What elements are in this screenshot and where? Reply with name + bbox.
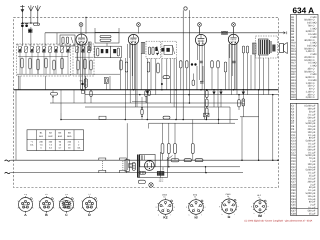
- svg-text:f: f: [201, 214, 202, 217]
- wire: [106, 43, 108, 46]
- band switch contact: [73, 44, 74, 45]
- socket B: [40, 198, 54, 212]
- tuning coil L7: [49, 47, 52, 53]
- chassis ground bus: [14, 89, 279, 91]
- svg-text:a k: a k: [45, 193, 47, 196]
- junction: [30, 22, 32, 24]
- wire drop x110: [109, 76, 111, 90]
- wire: [119, 58, 121, 90]
- svg-text:m g: m g: [24, 194, 27, 196]
- detector filter parts: [242, 46, 244, 53]
- junction: [147, 119, 149, 121]
- filter trimmer 2: [66, 37, 68, 44]
- svg-text:B4: B4: [68, 132, 71, 135]
- wire: [192, 74, 194, 81]
- wire divider links: [206, 98, 208, 100]
- wire tube lead: [196, 44, 198, 61]
- wire earth lead-in: [21, 12, 23, 23]
- divider resistor R28: [206, 99, 209, 107]
- svg-text:IM: IM: [258, 214, 262, 218]
- junction: [272, 94, 274, 96]
- wire: [263, 58, 265, 95]
- band switch contact: [89, 44, 90, 45]
- IF transformer box 2 (dashed): [162, 41, 177, 58]
- svg-text:Is: Is: [194, 196, 196, 199]
- bias resistor R34: [191, 144, 194, 154]
- svg-text:g: g: [156, 207, 157, 209]
- wire: [60, 103, 62, 113]
- rectifier tube B5: [145, 161, 155, 171]
- wire: [146, 58, 148, 119]
- tuning coil L4: [31, 47, 34, 53]
- mains DP switch S1 upper contact: [99, 158, 106, 160]
- wire: [268, 58, 270, 90]
- svg-text:Ie: Ie: [228, 215, 231, 219]
- svg-text:7.5: 7.5: [40, 144, 44, 147]
- svg-text:A: A: [24, 213, 27, 217]
- junction: [60, 119, 62, 121]
- junction: [81, 89, 83, 91]
- svg-text:R29: R29: [291, 96, 296, 99]
- IF decoupling resistor: [141, 109, 143, 115]
- resistor R24: [51, 93, 58, 96]
- wire: [218, 122, 220, 125]
- wire: [145, 96, 147, 103]
- tube top-cap connector x=199.5: [198, 23, 202, 27]
- wire coil-pack drop: [45, 76, 47, 90]
- divider resistor R29: [206, 108, 209, 116]
- resistor R9 (coil pack): [84, 59, 86, 69]
- volume control R22: [163, 76, 170, 79]
- junction: [218, 119, 220, 121]
- band switch contact: [77, 44, 78, 45]
- junction: [133, 89, 135, 91]
- svg-text:235: 235: [68, 141, 72, 144]
- transformer primary box: [140, 154, 155, 166]
- wire tube lead: [82, 44, 84, 90]
- junction: [206, 89, 208, 91]
- junction: [258, 89, 260, 91]
- wire tube lead: [236, 44, 238, 95]
- wire riser x272: [272, 95, 274, 161]
- svg-text:5.2: 5.2: [49, 146, 53, 149]
- svg-text:B2: B2: [49, 132, 52, 135]
- coil-pack shield box 2 (dashed): [73, 44, 94, 76]
- wire tube lead: [77, 44, 79, 61]
- wire: [217, 68, 219, 107]
- wire: [211, 68, 213, 90]
- wire: [132, 44, 134, 90]
- wire tube lead: [136, 44, 138, 108]
- grid capacitor C23: [232, 60, 235, 62]
- capacitor C24: [200, 80, 204, 82]
- svg-text:a: a: [46, 200, 47, 202]
- wire riser plug: [162, 167, 164, 171]
- wire: [19, 76, 21, 90]
- wire antenna A2 lead-in: [37, 11, 39, 25]
- resistor R6 (osc grid): [100, 36, 111, 38]
- wire: [247, 53, 249, 95]
- wire tube lead: [129, 44, 131, 59]
- switch S2 gang link (dashed): [122, 161, 124, 170]
- band switch contact: [85, 44, 86, 45]
- wire mains line N: [11, 172, 244, 174]
- svg-text:29: 29: [68, 144, 71, 147]
- wire: [166, 58, 168, 89]
- wire stub 101: [132, 101, 146, 103]
- RF coupling coil (hatched): [88, 42, 91, 51]
- svg-text:K2: K2: [163, 216, 167, 220]
- junction y94 b: [188, 94, 190, 96]
- svg-text:6H1: 6H1: [39, 135, 44, 138]
- electrolytic capacitor C28: [242, 92, 245, 96]
- wire antenna A1 lead-in: [30, 11, 32, 23]
- tube top-cap connector x=233.5: [232, 23, 236, 27]
- socket F (EH4): [189, 200, 204, 215]
- wire tube lead: [131, 44, 133, 77]
- junction: [220, 89, 222, 91]
- divider resistor R27: [206, 91, 209, 98]
- capacitor C2 (aerial series): [21, 24, 24, 27]
- wire G right: [188, 10, 190, 103]
- svg-text:220 V: 220 V: [159, 180, 164, 183]
- schematic frame (dash-dot border): [14, 17, 279, 187]
- wire bias corner: [148, 123, 150, 128]
- svg-text:mA: mA: [77, 146, 81, 149]
- tube B1 (RF pentode): [76, 34, 87, 45]
- junction: [200, 89, 202, 91]
- HT winding (dark): [157, 171, 164, 175]
- svg-text:230: 230: [39, 141, 43, 144]
- resistor R14: [147, 62, 150, 72]
- junction: [272, 159, 274, 161]
- svg-text:4.7: 4.7: [58, 146, 62, 149]
- electrolytic capacitor: [219, 92, 222, 96]
- junction y94 a: [139, 94, 141, 96]
- wire: [90, 96, 92, 103]
- junction: [213, 89, 215, 91]
- junction: [206, 119, 208, 121]
- bias capacitor blob: [81, 83, 83, 85]
- ballast resistor box: [125, 160, 129, 172]
- switch S1 gang link (dashed): [101, 161, 103, 170]
- wire riser x258: [258, 90, 260, 161]
- svg-text:s: s: [259, 196, 260, 199]
- svg-text:g a: g a: [65, 194, 68, 196]
- band switch contact: [49, 44, 50, 45]
- resistor parts table: [291, 15, 319, 100]
- resistor R7 (coil pack): [61, 58, 63, 69]
- resistor R26: [145, 91, 147, 97]
- svg-text:f: f: [171, 214, 172, 217]
- dial lamp: [149, 183, 153, 187]
- svg-text:6H5: 6H5: [67, 135, 72, 138]
- junction: [125, 119, 127, 121]
- wire rectifier feed: [240, 116, 259, 118]
- band switch contact: [17, 44, 18, 45]
- wire heater line: [140, 166, 240, 168]
- speaker magnet: [272, 45, 275, 52]
- svg-text:Ω: Ω: [313, 96, 315, 99]
- tuning coil L2: [19, 47, 22, 53]
- svg-text:~V: ~V: [30, 141, 33, 144]
- wire cathode bus: [61, 119, 238, 121]
- wire coil-pack drop: [80, 76, 82, 90]
- svg-text:(c) 1996 digital-adv Xaveer Ju: (c) 1996 digital-adv Xaveer Jungbluth - …: [245, 219, 313, 222]
- band switch contact: [45, 44, 46, 45]
- wire tube lead: [84, 44, 86, 104]
- svg-text:Id: Id: [195, 216, 198, 220]
- tuning coil L11: [76, 47, 79, 53]
- band switch contact: [25, 44, 26, 45]
- decoupling resistor R23: [238, 100, 241, 108]
- wire: [231, 44, 233, 95]
- wire: [196, 66, 198, 90]
- band-pass filter box: [60, 35, 75, 46]
- tone capacitor box: [204, 113, 210, 117]
- tube B3 (IF-detector): [195, 34, 206, 45]
- tuning coil L9: [61, 47, 64, 53]
- wire coil section rail: [17, 73, 120, 75]
- wire HT bus 2: [50, 102, 243, 104]
- svg-text:a: a: [268, 206, 269, 208]
- wire mains line L: [11, 159, 278, 161]
- svg-text:g: g: [186, 207, 187, 209]
- band switch contact: [53, 44, 54, 45]
- tube B4 (output pentode): [228, 34, 238, 44]
- wire: [173, 58, 175, 107]
- band switch contact: [57, 44, 58, 45]
- wire: [94, 28, 96, 32]
- coil L1 (aerial choke): [29, 29, 32, 32]
- wire coil-pack drop: [85, 76, 87, 90]
- resistor R10 (coil pack): [90, 60, 92, 70]
- junction: [22, 22, 24, 24]
- coupling capacitor C21: [191, 63, 193, 65]
- wire riser x206 lower: [205, 167, 207, 173]
- svg-text:k: k: [189, 214, 190, 217]
- wire tube lead: [79, 44, 81, 77]
- resistor R8 (coil pack): [77, 60, 79, 70]
- resistor R6 (coil pack): [53, 60, 55, 70]
- IF transformer box 1 (dashed): [146, 41, 161, 58]
- svg-text:95: 95: [59, 141, 62, 144]
- junction: [161, 89, 163, 91]
- resistor R5 (coil pack): [45, 58, 47, 68]
- wire: [161, 58, 163, 89]
- output transformer box (dashed): [256, 36, 278, 58]
- band switch contact: [21, 44, 22, 45]
- wire stub vert146: [145, 97, 147, 104]
- voltage test table: [27, 130, 84, 151]
- svg-text:7.4: 7.4: [49, 144, 53, 147]
- grid stopper box: [222, 31, 228, 34]
- electrolytic capacitor: [212, 92, 215, 96]
- switch contact diagonal: [167, 156, 173, 161]
- mains DP switch S2 lower contact: [120, 170, 127, 172]
- wire riser x218: [218, 107, 220, 124]
- junction: [241, 159, 243, 161]
- resistor R3 (coil pack): [29, 58, 31, 69]
- wire tube lead: [231, 44, 233, 77]
- junction: [175, 89, 177, 91]
- wire: [243, 53, 245, 90]
- wire riser x268: [268, 90, 270, 95]
- svg-text:D: D: [88, 213, 91, 217]
- wire: [15, 90, 17, 161]
- wire: [250, 55, 252, 90]
- cathode bias resistor (double): [84, 79, 87, 88]
- IF coil L12 (hatched): [253, 43, 257, 54]
- band switch contact: [37, 44, 38, 45]
- antenna A1: [28, 5, 33, 11]
- junction: [205, 172, 207, 174]
- wire AVC bus: [85, 106, 230, 108]
- svg-text:C: C: [65, 213, 68, 217]
- wire drop x74: [73, 90, 75, 103]
- mains DP switch S1 lower contact: [99, 170, 106, 172]
- resistor R25: [90, 91, 92, 97]
- band switch contact: [65, 44, 66, 45]
- socket G (CH63): [222, 199, 237, 214]
- capacitor parts table: [291, 103, 319, 215]
- junction: [277, 159, 279, 161]
- wire: [124, 58, 126, 120]
- capacitor C3: [25, 24, 28, 27]
- svg-text:6H2: 6H2: [48, 135, 53, 138]
- capacitor C25: [146, 91, 149, 94]
- wire: [202, 66, 204, 81]
- resistor R4 (coil pack): [37, 59, 39, 70]
- tuning coil L5: [37, 47, 40, 53]
- mains capacitor: [129, 163, 133, 167]
- wire: [233, 27, 235, 34]
- resistor R16: [186, 61, 189, 68]
- svg-text:33: 33: [68, 146, 71, 149]
- wire drop x53: [52, 97, 54, 103]
- tuning coil L13: [88, 47, 91, 53]
- tube top-cap connector x=138.5: [137, 23, 141, 27]
- socket E (CH63): [158, 200, 173, 215]
- svg-text:B1: B1: [40, 132, 43, 135]
- wire: [118, 28, 120, 32]
- loudspeaker: [280, 44, 284, 53]
- svg-text:g: g: [86, 202, 87, 204]
- wire aerial drop 2: [30, 27, 32, 46]
- bias resistor R32: [167, 144, 170, 154]
- band switch contact: [29, 44, 30, 45]
- svg-text:2: 2: [78, 144, 80, 147]
- resistor R18: [217, 61, 220, 68]
- junction: [268, 89, 270, 91]
- svg-text:2,000: 2,000: [306, 96, 313, 99]
- resistor R13: [125, 62, 128, 72]
- connector bump on cathode bus: [99, 116, 106, 119]
- wire transformer risers: [159, 152, 161, 178]
- connector bump 2: [163, 116, 170, 119]
- title 634 A: [293, 7, 314, 13]
- junction: [238, 94, 240, 96]
- svg-text:k: k: [254, 212, 255, 215]
- junction: [168, 166, 170, 168]
- wire HT bus 1: [85, 94, 279, 96]
- oscillator padder box 1: [95, 46, 111, 58]
- svg-text:1: 1: [78, 141, 80, 144]
- wire tube lead: [204, 44, 206, 120]
- junction: [182, 119, 184, 121]
- svg-text:k f: k f: [89, 193, 91, 196]
- coil rail 2: [75, 56, 93, 58]
- wire aerial drop 1: [21, 27, 23, 46]
- resistor R7: [100, 39, 111, 41]
- svg-text:B: B: [45, 213, 48, 217]
- band switch contact: [69, 44, 70, 45]
- filter trimmer 1: [62, 37, 64, 44]
- tuning coil L8: [55, 47, 58, 53]
- IF coil L10 (hatched): [141, 42, 145, 53]
- transformer core: [137, 155, 139, 178]
- output transformer windings: [259, 39, 269, 55]
- mains resistor: [195, 159, 203, 162]
- resistor R20: [224, 62, 227, 72]
- svg-text:k: k: [222, 213, 223, 216]
- oscillator coupling box: [95, 32, 119, 43]
- wire tube lead: [201, 44, 203, 90]
- resistor R2 (coil pack): [21, 58, 23, 68]
- junction: [243, 89, 245, 91]
- wire mains riser 1: [126, 123, 128, 160]
- svg-text:f: f: [264, 212, 265, 215]
- junction blob: [161, 83, 163, 85]
- svg-text:6H4: 6H4: [58, 135, 63, 138]
- wire: [176, 58, 178, 119]
- gramophone terminal G: [184, 7, 187, 10]
- svg-text:f: f: [234, 213, 235, 216]
- svg-text:a: a: [238, 206, 239, 208]
- svg-text:B3: B3: [59, 132, 62, 135]
- smoothing resistor R30 (hatched): [242, 99, 245, 106]
- wire: [180, 68, 182, 90]
- band switch contact: [81, 44, 82, 45]
- junction: [233, 89, 235, 91]
- filter link wire: [71, 37, 73, 43]
- mains tilde N: [5, 172, 11, 173]
- wire tube lead: [199, 44, 201, 81]
- svg-text:C38: C38: [291, 212, 296, 215]
- wire: [186, 68, 188, 90]
- heater winding (hatched): [139, 171, 146, 174]
- resistor R15: [180, 61, 183, 68]
- wire transformer bottom: [138, 177, 168, 179]
- bias resistor R33: [174, 144, 177, 154]
- oscillator padder box 2: [111, 46, 122, 58]
- wire: [80, 33, 82, 36]
- wire: [169, 58, 171, 103]
- grid capacitor C22: [200, 60, 203, 62]
- junction: [205, 166, 207, 168]
- mains DP switch S2 upper contact: [120, 158, 127, 160]
- svg-text:230: 230: [49, 141, 53, 144]
- AVC cluster: [104, 78, 108, 84]
- band switch contact: [61, 44, 62, 45]
- wire: [44, 33, 46, 46]
- band switch contact: [41, 44, 42, 45]
- svg-text:k: k: [158, 214, 159, 217]
- wire: [229, 107, 231, 123]
- socket D: [82, 197, 96, 211]
- wire: [235, 44, 237, 90]
- svg-text:5: 5: [41, 146, 43, 149]
